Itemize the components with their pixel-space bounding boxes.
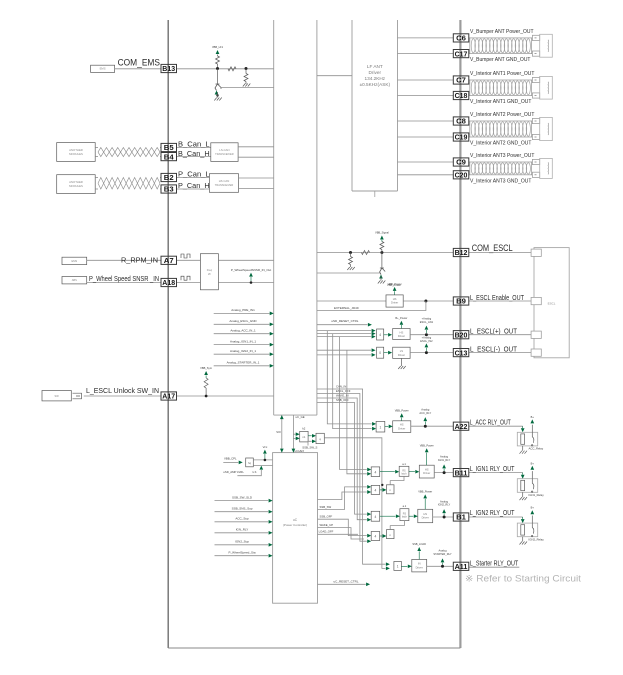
square wave symbol A18 (181, 276, 190, 280)
svg-text:C13: C13 (455, 348, 468, 357)
svg-text:C18: C18 (455, 91, 468, 100)
gate A2 output arrow (384, 352, 388, 354)
switch box L_ESCL unlock (42, 391, 71, 401)
RS latch U11 (399, 466, 409, 476)
svg-text:R_RPM_IN: R_RPM_IN (121, 256, 158, 265)
svg-text:Driver: Driver (398, 353, 405, 357)
svg-text:Driver: Driver (369, 70, 382, 75)
svg-text:IGN1_Relay: IGN1_Relay (529, 493, 545, 497)
pull-up resistor R4 (205, 392, 207, 395)
net arrow Analog STARTER_RLY (442, 563, 444, 565)
wire A18 to filter (177, 282, 201, 284)
svg-text:Freq: Freq (207, 268, 213, 272)
power arrow VBB_Sig (380, 236, 384, 240)
svg-text:SSB_SNS_Sup: SSB_SNS_Sup (232, 507, 253, 511)
wire MCU to U3 (317, 75, 352, 77)
svg-text:4: 4 (375, 535, 377, 539)
svg-text:SSB_SW: SSB_SW (320, 505, 332, 509)
power arrow VBB_LF (216, 50, 220, 54)
svg-text:k.S: k.S (253, 470, 257, 474)
wire antenna L3 to connector (531, 120, 532, 122)
svg-text:TRANSCEIVER: TRANSCEIVER (215, 183, 234, 187)
node on A22 net (424, 425, 427, 428)
svg-text:A11: A11 (455, 562, 468, 571)
wire antenna L4 to connector (531, 161, 532, 163)
net arrow P_WheelSpeed_Sta into U2 (215, 555, 269, 557)
wire pin B13 to MCU (177, 68, 274, 70)
gate B3 output arrow (385, 425, 389, 427)
wire LS-CAN to MCU a (238, 146, 274, 148)
ground for Q1 (217, 92, 219, 98)
svg-text:Driver: Driver (423, 471, 430, 475)
svg-text:IN: IN (418, 562, 421, 566)
wire CAN_IN from U1 (317, 389, 386, 564)
gate B8 output arrow (401, 565, 407, 567)
wire U2 out 1 (318, 492, 367, 500)
svg-text:a.1: a.1 (403, 504, 407, 508)
wire WAKE_IN from U1 (317, 398, 367, 520)
wire module2 to twisted pair (95, 177, 98, 179)
pin B2 (161, 173, 177, 181)
pin B13 (161, 64, 177, 72)
gate B3 (ACC) (376, 421, 385, 432)
wire B20 to ESCL module (469, 334, 534, 336)
gate B6 (IGN2) (371, 511, 380, 521)
svg-text:IGN2_Sup: IGN2_Sup (235, 540, 249, 544)
svg-text:IGN1_RLY: IGN1_RLY (438, 458, 451, 462)
pin B9 (453, 297, 469, 305)
pin B4 (161, 153, 177, 161)
pin A11 (453, 562, 469, 570)
wire HS-CAN to MCU b (239, 188, 274, 190)
wire B2 to HS-CAN transceiver (177, 177, 210, 179)
wire N2 to latch U13 (389, 526, 391, 530)
svg-text:B20: B20 (455, 330, 468, 339)
svg-text:Analog_IGN1_IN_1: Analog_IGN1_IN_1 (230, 339, 256, 343)
wire B5 to LS-CAN transceiver (177, 147, 211, 149)
SMART KEY unit boundary left edge (167, 20, 169, 648)
wire SIO link between U1 and U2 (281, 415, 283, 453)
net arrow SSB_SNS_Sup into U2 (215, 511, 269, 513)
svg-text:I/F: I/F (208, 272, 211, 276)
node on B1 net (443, 516, 446, 519)
transistor Q2 (381, 253, 383, 269)
wire bus V4 to gate B2 in2 (347, 350, 367, 474)
svg-text:a.1: a.1 (402, 462, 406, 466)
wire EXTERNAL feedback (317, 301, 426, 311)
wire U14 to pin B1 (433, 516, 454, 518)
node P_WheelSpeed tap (250, 281, 253, 284)
ESCL pin 3 (531, 331, 541, 338)
svg-text:LS-CAN: LS-CAN (219, 148, 229, 152)
LS driver U9 (393, 347, 410, 358)
ANOTHER MODULES box 1 (57, 143, 95, 162)
pin C6 (453, 34, 469, 42)
ANOTHER MODULES box 2 (57, 175, 95, 194)
node Q1 emitter (216, 94, 218, 96)
net arrow P_WheelSpeedSNSR_IN_Out (250, 277, 252, 281)
antenna connector J3 (532, 118, 539, 123)
HS-CAN transceiver U5 (209, 174, 238, 193)
svg-text:B+: B+ (531, 461, 535, 465)
wire A17 to MCU (177, 395, 274, 397)
svg-text:1: 1 (380, 425, 382, 429)
ESCL pin 2 (531, 297, 541, 304)
pin B20 (453, 331, 469, 339)
node on COM_EMS net (216, 67, 219, 70)
svg-text:B+: B+ (531, 415, 535, 419)
square wave symbol A7 (181, 254, 190, 258)
net arrow Analog_IGN1_IN_1 into MCU (214, 344, 270, 346)
series resistor R2 (228, 67, 236, 71)
svg-text:VBB_Sym: VBB_Sym (200, 366, 212, 370)
pin C18 (453, 91, 469, 99)
svg-text:SIO: SIO (276, 430, 280, 434)
svg-text:P_WheelSpeedSNSR_IN_Out: P_WheelSpeedSNSR_IN_Out (231, 268, 272, 272)
svg-text:MODULES: MODULES (69, 152, 83, 156)
logic box K2 (316, 433, 324, 443)
wire V_Interior ANT2 GND from U3 to C19 (398, 136, 454, 138)
arrow K1 to K2 (308, 435, 312, 437)
pin A22 (453, 422, 469, 430)
svg-text:※ Refer to Starting Circuit: ※ Refer to Starting Circuit (465, 574, 581, 585)
node on B11 net (443, 471, 446, 474)
svg-text:Vcc: Vcc (263, 445, 268, 449)
svg-text:latch: latch (401, 472, 407, 475)
ground for U9 (400, 358, 402, 366)
wire sensor to pin A18 (87, 282, 161, 284)
net arrow Analog ESCL_AN1 (425, 330, 427, 333)
wire C8 to antenna L3 (469, 120, 470, 122)
svg-text:STARTER_RLY: STARTER_RLY (433, 552, 451, 556)
resistor R5 to ground (350, 253, 352, 257)
power controller block U2 outline (273, 453, 318, 604)
wire U2 out SSB_SW (318, 487, 367, 510)
net arrow Analog_STARTER_IN_1 into MCU (214, 365, 270, 367)
antenna coil L2 (470, 80, 532, 96)
svg-text:n1: n1 (302, 435, 306, 439)
svg-text:L_ESCL(-)_OUT: L_ESCL(-)_OUT (470, 344, 517, 353)
svg-text:A22: A22 (455, 422, 468, 431)
wire B9 to ESCL module (469, 300, 534, 302)
net arrow ACC_Sup into U2 (215, 521, 269, 523)
svg-text:B2: B2 (164, 173, 174, 182)
svg-text:V_Interior ANT2 Power_OUT: V_Interior ANT2 Power_OUT (470, 112, 534, 118)
wire V_Interior ANT2 Power from U3 to C8 (398, 120, 454, 122)
svg-text:HS CAN: HS CAN (219, 179, 230, 183)
pin B11 (453, 469, 469, 477)
arrow SIO down (280, 449, 284, 453)
wire branch to K1 in2 (293, 437, 295, 439)
svg-text:VBB_CPL: VBB_CPL (224, 456, 237, 460)
wire C18 to antenna L2 (469, 95, 470, 97)
pin C17 (453, 50, 469, 58)
svg-text:C6: C6 (456, 34, 466, 43)
MCU block U1 main processor outline (274, 20, 317, 415)
svg-text:k2: k2 (302, 427, 305, 431)
node on C13 net (425, 351, 428, 354)
svg-text:LOAD_OFF: LOAD_OFF (319, 530, 334, 534)
wire module1 to twisted pair (95, 147, 98, 149)
wire EMS box to pin B13 (115, 68, 161, 70)
svg-text:P_Can_L: P_Can_L (178, 169, 210, 178)
LF ANT driver block U3 outline (352, 20, 398, 191)
pin C19 (453, 133, 469, 141)
net arrow Analog ESCL_IN2 (425, 348, 427, 351)
pin A18 (161, 278, 177, 286)
svg-text:Analog_STARTER_IN_1: Analog_STARTER_IN_1 (227, 361, 260, 365)
svg-text:L_ESCL Unlock SW_IN: L_ESCL Unlock SW_IN (86, 386, 159, 395)
twisted pair P-CAN (98, 178, 160, 190)
ESCL pin 4 (531, 349, 541, 356)
power arrow VBB for U12 (426, 453, 428, 466)
svg-text:Driver: Driver (391, 301, 398, 305)
svg-text:HS: HS (400, 423, 404, 427)
svg-text:VBB_LF1: VBB_LF1 (212, 45, 224, 49)
wire uSD_AMP stub (237, 470, 261, 476)
svg-text:uSD_RESET_CTRL: uSD_RESET_CTRL (331, 319, 358, 323)
svg-text:4: 4 (375, 471, 377, 475)
svg-text:uC: uC (293, 518, 298, 522)
svg-text:ACC_Sup: ACC_Sup (235, 517, 249, 521)
wire HS-CAN to MCU a (239, 177, 274, 179)
sensor box wheel speed (62, 277, 87, 284)
svg-text:ESCL_OFF: ESCL_OFF (336, 389, 351, 393)
svg-text:EMS: EMS (71, 259, 77, 263)
logic box N2 (387, 530, 395, 539)
wire B12 to ESCL module (469, 252, 534, 254)
svg-text:A18: A18 (162, 278, 175, 287)
svg-text:VBB_Signal: VBB_Signal (375, 231, 389, 235)
node on A11 net (441, 565, 444, 568)
EMS module box (91, 65, 115, 72)
pin C13 (453, 349, 469, 357)
net arrow Analog_PRE_IN1 into MCU (214, 312, 270, 314)
svg-text:ESCL: ESCL (548, 302, 556, 306)
wire sensor to pin A7 (87, 259, 161, 261)
power arrow B+ for U8 (400, 325, 402, 329)
resistor R3 (245, 69, 247, 74)
power arrow SSB_LOAD for U15 (418, 551, 420, 559)
latch U11 output arrow (409, 471, 415, 473)
svg-text:HS: HS (393, 297, 397, 301)
power arrow VBB for U14 (424, 499, 426, 510)
HS driver U12 (419, 465, 434, 478)
power arrow VBB for U7 (394, 291, 396, 295)
SMART KEY unit boundary right edge (459, 20, 461, 648)
svg-text:P_Wheel Speed SNSR _IN: P_Wheel Speed SNSR _IN (89, 274, 159, 283)
svg-text:134.2KHz: 134.2KHz (365, 76, 386, 81)
wire C13 to ESCL module (469, 352, 534, 354)
wire twisted pair to pins B5 B4 (160, 147, 161, 149)
pull-up resistor R1 (217, 55, 219, 57)
pin C8 (453, 117, 469, 125)
wire A7 to filter (177, 259, 201, 261)
wire twisted pair to pins B2 B3 (160, 177, 161, 179)
svg-text:SSB_LOAD: SSB_LOAD (412, 542, 426, 546)
svg-text:VBB_Power: VBB_Power (418, 490, 432, 494)
ground for R5 (347, 267, 355, 270)
svg-text:L_IGN2 RLY_OUT: L_IGN2 RLY_OUT (470, 508, 515, 517)
wire switch to pin A17 (84, 395, 161, 397)
svg-text:B13: B13 (162, 64, 175, 73)
wire filter to MCU b (218, 282, 273, 284)
gate B4 output arrow (380, 471, 395, 473)
pin C9 (453, 158, 469, 166)
antenna coil L4 (470, 162, 532, 175)
svg-text:C8: C8 (456, 117, 466, 126)
svg-text:HS: HS (423, 512, 427, 516)
svg-text:LF ANT: LF ANT (367, 64, 383, 69)
net arrow Analog IGN1_RLY (443, 469, 445, 471)
gate B4 (IGN1) (371, 467, 380, 477)
sensor box RPM (62, 257, 87, 264)
gate B5a (IGN1 aux) (371, 485, 380, 494)
pin C20 (453, 171, 469, 179)
HS driver U10 (393, 421, 411, 433)
svg-text:V_Interior ANT2 GND_OUT: V_Interior ANT2 GND_OUT (470, 141, 531, 147)
svg-text:±0.5KHz(ASK): ±0.5KHz(ASK) (360, 82, 391, 87)
svg-text:B_Can_L: B_Can_L (178, 139, 210, 148)
svg-text:SW: SW (55, 394, 60, 398)
svg-text:4: 4 (375, 489, 377, 493)
wire V_Bumper ANT Power from U3 to C6 (398, 37, 454, 39)
svg-text:WAKE_UP: WAKE_UP (320, 523, 334, 527)
latch U13 output arrow (409, 515, 414, 517)
wire antenna L2 to connector (531, 79, 532, 81)
wire B3 to HS-CAN transceiver (177, 188, 210, 190)
pin A7 (161, 256, 177, 264)
svg-text:B5: B5 (164, 143, 174, 152)
wire MCU to HS driver U7 (317, 300, 386, 302)
logic box K1 (300, 431, 308, 442)
wire filter to MCU a (218, 259, 273, 261)
wire VBB_CPL to K3 (223, 461, 238, 463)
wire SSB_OFF from U1 (317, 403, 367, 515)
net arrow Analog IGN2_RLY (443, 514, 445, 516)
RS latch U13 (400, 509, 409, 521)
svg-text:V_Interior ANT1 GND_OUT: V_Interior ANT1 GND_OUT (470, 99, 531, 105)
wire C19 to antenna L3 (469, 136, 470, 138)
svg-text:ABS: ABS (72, 278, 77, 282)
svg-text:B9: B9 (456, 297, 466, 306)
svg-text:HS: HS (400, 330, 404, 334)
HS driver U8 (393, 329, 410, 340)
wire A11 stub under label (469, 566, 520, 568)
svg-text:4: 4 (379, 333, 381, 337)
arrow SIO up (280, 415, 284, 419)
svg-text:uC_RESET_CTRL: uC_RESET_CTRL (333, 580, 358, 584)
relay ACC_Relay (469, 425, 523, 427)
svg-text:(Power Controller): (Power Controller) (283, 523, 307, 527)
node Vcc tap (264, 459, 267, 462)
wire uC_RESET_CTRL (318, 583, 366, 585)
svg-text:ACC_RLY: ACC_RLY (419, 411, 431, 415)
input filter block U6 (200, 254, 218, 290)
svg-text:MODULES: MODULES (69, 184, 83, 188)
svg-text:SSB_SW_SLD: SSB_SW_SLD (232, 495, 253, 499)
wire MCU to pin B12 (COM_ESCL) (317, 252, 453, 254)
svg-text:SSB_OFF: SSB_OFF (320, 515, 333, 519)
svg-text:V_Interior ANT3 Power_OUT: V_Interior ANT3 Power_OUT (470, 153, 534, 159)
gate B5a output arrow (380, 489, 382, 491)
wire U2 out WAKE_UP (318, 528, 365, 539)
svg-text:uC_GE: uC_GE (296, 415, 305, 419)
twisted pair B-CAN (98, 148, 160, 157)
wire C17 to antenna L1 (469, 53, 470, 55)
svg-text:B+: B+ (531, 506, 535, 510)
svg-text:TRANSCEIVER: TRANSCEIVER (215, 152, 234, 156)
svg-text:C17: C17 (455, 49, 468, 58)
net arrow Analog_ACC_IN_1 into MCU (214, 333, 270, 335)
svg-text:C20: C20 (455, 171, 468, 180)
gate A1 output arrow (384, 334, 388, 336)
svg-text:L_IGN1 RLY_OUT: L_IGN1 RLY_OUT (470, 464, 515, 473)
svg-text:B11: B11 (455, 468, 468, 477)
series resistor R6 (361, 251, 369, 255)
pin B12 (453, 248, 469, 256)
svg-text:IGN2_Relay: IGN2_Relay (529, 537, 545, 541)
SMART KEY unit boundary bottom edge (168, 647, 460, 649)
svg-text:Analog_PRE_IN1: Analog_PRE_IN1 (231, 308, 255, 312)
wire U9 to pin C13 (410, 352, 453, 354)
svg-text:4: 4 (375, 515, 377, 519)
wire U2 out SSB_OFF (318, 519, 367, 535)
svg-text:B3: B3 (164, 185, 174, 194)
svg-text:C9: C9 (456, 158, 466, 167)
svg-text:LS: LS (400, 349, 403, 353)
svg-text:V_Bumper ANT GND_OUT: V_Bumper ANT GND_OUT (470, 57, 530, 63)
wire V_Interior ANT3 Power from U3 to C9 (398, 161, 454, 163)
gate B7a output arrow (380, 535, 382, 537)
wire U15 to pin A11 (427, 565, 454, 567)
antenna connector J2 (532, 77, 539, 82)
wire antenna L1 to connector (531, 37, 532, 39)
svg-text:Analog_IGN2_IN_1: Analog_IGN2_IN_1 (230, 349, 256, 353)
wire K2 output bus (324, 438, 385, 569)
net arrow SSB_SW_SLD into U2 (215, 500, 269, 502)
svg-text:L_ESCL Enable_OUT: L_ESCL Enable_OUT (470, 293, 524, 302)
svg-text:Driver: Driver (398, 334, 405, 338)
wire V_Interior ANT1 Power from U3 to C7 (398, 79, 454, 81)
ESCL module box (534, 248, 569, 358)
svg-text:1: 1 (397, 565, 399, 569)
power arrow VBB for U10 (401, 418, 403, 421)
svg-text:VBB_Power: VBB_Power (388, 282, 402, 286)
svg-text:EXTERNAL_JD49: EXTERNAL_JD49 (334, 306, 359, 310)
LS driver U15 (412, 559, 427, 572)
gate A1 input wires (317, 330, 371, 332)
HS driver U14 (418, 509, 433, 522)
transistor Q1 (217, 69, 219, 84)
ground for Q2 (380, 276, 382, 281)
antenna coil L3 (470, 121, 532, 137)
wire U10 to pin A22 (411, 425, 454, 427)
svg-text:Driver: Driver (398, 426, 405, 430)
LS-CAN transceiver U4 (211, 143, 238, 162)
gate A2 (377, 347, 384, 358)
switch contact symbol (73, 393, 82, 399)
ground for R3 (243, 84, 251, 87)
net arrow IGN2_Sup into U2 (215, 544, 269, 546)
svg-text:B4: B4 (164, 152, 175, 161)
node feedback B11 (381, 484, 383, 486)
antenna connector J1 (532, 35, 539, 40)
svg-text:L_ACC RLY_OUT: L_ACC RLY_OUT (470, 417, 511, 426)
gate A2 input wires (317, 349, 371, 351)
pin C7 (453, 76, 469, 84)
gate B8 (starter) (394, 562, 402, 571)
